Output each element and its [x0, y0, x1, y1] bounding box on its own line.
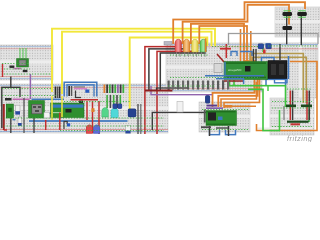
LED D3 yellow	[192, 39, 199, 57]
wire blue BL11	[266, 79, 286, 86]
capacitor small blue bottom left	[67, 123, 70, 126]
LED D6 cyan on BB2	[111, 108, 118, 118]
crystal component left of mega	[214, 64, 222, 73]
component stubs cluster BB2 top	[104, 85, 125, 94]
red jumper flat on BB7	[291, 123, 301, 125]
wire black K10b	[10, 116, 12, 133]
wire red R5c diagonal	[217, 54, 224, 62]
svg-text:fritzing: fritzing	[287, 134, 313, 142]
arduino mega board	[224, 62, 268, 80]
breadboard BB6 (bottom-middle, MCU board)	[199, 102, 250, 132]
resistor bars inside frame	[68, 86, 70, 96]
trimmer pot 2	[18, 117, 22, 126]
wire red R11 under frame	[71, 99, 99, 101]
wire yellow C from BB2 to BB3	[130, 38, 208, 112]
wire green G0b stub	[233, 80, 235, 86]
wire green G0 long to BB7	[230, 80, 286, 107]
breadboard BB1 (top-left)	[0, 45, 53, 80]
wire orange stub bundle b	[250, 31, 252, 64]
resistor K12b on BB1	[23, 70, 28, 72]
green module M0 left	[6, 104, 13, 118]
wire red R12 vertical	[59, 113, 61, 131]
wire blue BL2 row link	[32, 98, 65, 100]
capacitor blue box in frame	[85, 90, 89, 93]
capacitor C4 on BB3 bottom	[205, 96, 210, 104]
wire orange O8 from BB6 to right	[232, 105, 256, 107]
wire gray BB7	[283, 106, 285, 120]
wire blue BL3 long bottom	[29, 120, 128, 122]
gray bar in frame	[74, 86, 85, 87]
wire black K14 corner	[157, 88, 189, 91]
wire black K1 loop	[149, 49, 189, 90]
red LED small on BB4	[263, 50, 266, 54]
wire black hook in frame	[76, 91, 82, 98]
wire black K2 loop	[160, 53, 205, 90]
wire orange O5 mega to BB6	[224, 79, 260, 108]
wire orange stub bundle a	[240, 29, 242, 61]
standing resistors BB2 middle	[106, 95, 121, 108]
wire blue tiny under M0	[13, 119, 16, 121]
wire red R6 dark	[222, 80, 244, 82]
wire red R4c vertical	[98, 101, 100, 134]
LED D4 green	[200, 39, 207, 57]
wire orange O4 LED4 to BB6	[199, 26, 257, 107]
wire blue BL4 under mega	[205, 75, 264, 77]
wire blue BL2b cap link	[240, 52, 252, 57]
wire black K9b BB6	[228, 126, 230, 136]
wire black K8b	[255, 49, 257, 62]
orange resistor BB6 top	[225, 105, 233, 108]
wire blue BL10	[288, 56, 290, 79]
wire orange O7 right edge loop	[257, 62, 318, 131]
wire blue BL5 right of mega	[262, 58, 275, 70]
breadboard BB2 (left wide)	[0, 84, 168, 133]
resistor bars in frame	[55, 87, 57, 99]
LED D1 red	[175, 39, 182, 57]
wire blue BL1b inner frame	[67, 85, 94, 97]
wire red R7 BB3 left	[145, 90, 172, 92]
wire purple P1	[29, 74, 31, 99]
push button S3 on BB5	[283, 26, 293, 30]
wire orange O6 step	[221, 82, 257, 107]
wire green G4 BB7	[308, 103, 310, 122]
wire black K8a	[253, 49, 255, 62]
trimmer pot 3 BB2 bottom	[126, 125, 131, 133]
wire red R4a vertical	[86, 101, 88, 120]
green module M3 LCD driver	[51, 101, 85, 118]
capacitor C3 dark blue BB2	[128, 109, 136, 117]
wire tan T1	[250, 54, 303, 104]
wire green G3 stub	[262, 44, 264, 52]
wire yellow B from BB1 to BB3	[62, 32, 212, 94]
wire gray GR2 long	[229, 34, 319, 46]
wire blue BL14 short	[49, 112, 58, 114]
wire red R1 loop	[145, 47, 180, 134]
capacitor blue pair C1 C2 on BB2	[113, 104, 117, 109]
wire purple P4 long	[151, 86, 212, 95]
gray bar left of MCU board	[204, 110, 206, 123]
breadboard BB5 (top-right, buttons)	[275, 7, 320, 37]
wire blue BL12a U loop BB6	[210, 130, 220, 135]
wire black K5a	[137, 104, 139, 134]
green connection dots rows	[2, 46, 318, 131]
push button S2 on BB5	[297, 11, 307, 17]
wire blue BL1a outer frame	[64, 82, 97, 96]
wire red BB7 R15	[306, 91, 308, 121]
wire black BB7 K15	[292, 91, 294, 121]
wire black K10a	[23, 98, 25, 133]
wire magenta P2	[14, 68, 22, 70]
wire magenta P8 in frame	[74, 88, 87, 90]
wire orange O3 LED3 to BB6	[191, 24, 255, 107]
wire red R3 left bar	[3, 104, 5, 130]
wire red R3b bottom	[4, 129, 7, 131]
wire orange stub near green LED	[205, 39, 207, 53]
wire black K8c	[279, 44, 281, 60]
green module M1 on BB1	[17, 48, 29, 67]
wire red R5b	[225, 44, 227, 58]
diode bars on BB7	[286, 105, 296, 108]
wire orange O2 LED2 to BB5	[183, 5, 289, 44]
wire yellow Y4 over module	[51, 96, 53, 120]
wire black K3 long horizontal	[152, 112, 206, 130]
wire green G0c stub	[267, 86, 269, 91]
white pin header under M2	[44, 113, 50, 118]
wire magenta P3	[13, 98, 30, 100]
wire green G2 U bottom right	[248, 89, 280, 130]
resistor bars row on BB3	[168, 81, 230, 90]
LED D2 orange	[183, 39, 190, 57]
wire black K7b BB5	[300, 16, 302, 46]
wire blue BL7 over mega	[216, 79, 244, 84]
wire orange O1 LED1 to BB5	[173, 2, 305, 44]
wire blue BL16 rect BB3	[231, 52, 237, 57]
capacitor C5 C6 on BB4 top	[258, 44, 264, 49]
wire black BB7 K16	[308, 91, 310, 121]
resistor K12a on BB1	[10, 66, 15, 68]
wire white W1 bottom right	[258, 98, 313, 128]
LED D5 green on BB2	[102, 108, 109, 117]
resistor K12c on BB2	[5, 98, 12, 101]
wire black K10c	[33, 116, 35, 133]
wire red R5 BB3 right	[220, 48, 231, 50]
wire black K7a BB5	[286, 16, 288, 45]
wire blue BL12b U loop BB6	[226, 130, 236, 135]
svg-text:atmega2560: atmega2560	[228, 69, 242, 72]
wire black hook bottom left	[64, 122, 67, 130]
black driver module right of mega	[268, 61, 287, 79]
trimmer pot white/blue BB1 area	[15, 105, 20, 114]
white component between BB3 and BB6	[177, 101, 183, 112]
wire yellow Y5 over module	[61, 96, 63, 117]
push button S1 on BB5	[283, 11, 293, 17]
wire blue BL6 U below module	[275, 79, 288, 83]
wire black K5b	[140, 104, 142, 134]
resistor orange small BB2	[91, 108, 94, 112]
gray component above LEDs	[164, 42, 172, 46]
wire black K2r rectangle	[2, 87, 20, 128]
wire tan T2	[253, 57, 307, 103]
wire green G5 over module	[52, 103, 54, 117]
wire red BB7 R14	[289, 91, 291, 121]
breadboard BB4 (right of middle)	[260, 43, 318, 98]
wire red R9 BB1 left	[2, 64, 4, 77]
wire yellow A from BB1 to BB3	[52, 29, 215, 92]
MCU board on BB6	[206, 111, 237, 126]
breadboard BB7 (bottom-right)	[270, 98, 314, 135]
purple header bars BB6 top	[207, 105, 218, 107]
LED D7 red on BB2 bottom	[86, 125, 92, 134]
breadboard BB3 (middle, LEDs)	[166, 43, 262, 92]
LED D8 blue on BB2 bottom	[93, 125, 99, 134]
wire red R4b vertical	[92, 101, 94, 133]
wire black K9a BB6	[209, 126, 211, 136]
wire red R13 short vertical	[45, 120, 47, 130]
green module M2 with DIP chip	[29, 101, 45, 119]
wire red R2 loop	[157, 51, 197, 134]
wire blue BL9 corner	[266, 44, 270, 48]
wire blue BL15	[224, 62, 226, 75]
dark bar under BB6 board	[201, 126, 211, 128]
wire black K4 BB1	[10, 77, 12, 88]
